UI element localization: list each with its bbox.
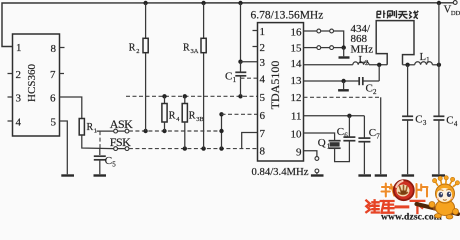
watermark text 维库一下 [366,200,424,213]
resistor R1 [79,119,97,136]
ground switches [339,56,350,58]
ground C7 [358,174,371,176]
svg-text:MHz: MHz [351,43,374,55]
wire pin4 stub [8,120,13,122]
capacitor C2 [359,77,379,96]
svg-text:6: 6 [50,93,56,105]
svg-text:ASK: ASK [110,117,133,131]
svg-text:C: C [225,71,232,83]
wire pin1 stub [253,30,258,32]
node ASK-R4 [162,129,166,133]
svg-text:C: C [415,114,422,126]
svg-text:3: 3 [260,57,266,69]
wire crystal to C6 bottom [335,141,350,162]
printed antenna loop [376,21,414,65]
inductor L1 [415,52,433,65]
svg-text:R: R [87,122,94,133]
svg-text:3A: 3A [191,48,199,55]
resistor R2 [129,3,148,131]
ground C4 [432,174,445,176]
wire junction column [221,114,223,148]
svg-text:R: R [189,111,196,122]
node L1-VDD [437,63,441,67]
node column-ASK [219,129,223,133]
node switches [342,45,346,49]
node ASK-R2 [143,129,147,133]
node rail-R2 [143,1,147,5]
svg-text:4: 4 [454,120,458,128]
svg-text:13: 13 [291,75,303,87]
wire pin13 to C2 [304,80,359,82]
ground pin9 [311,174,324,176]
wire L2 to antenna [369,64,387,66]
svg-text:R: R [169,111,176,122]
capacitor C3 [402,114,427,175]
svg-text:3: 3 [423,119,427,127]
svg-text:15: 15 [291,42,303,54]
wire TDA5100 pin7 to FSK [242,133,258,149]
wire pin14 to L2 [304,64,353,66]
wire antenna right to L1 [403,64,415,66]
svg-text:7: 7 [260,128,266,140]
IC U2 TDA5100 [258,23,304,161]
wire pin2 stub [253,46,258,48]
svg-text:5: 5 [112,161,116,169]
svg-text:0.84/3.4MHz: 0.84/3.4MHz [252,166,309,178]
switch 434 (pin16) [317,29,334,33]
wire C3 column [407,65,409,116]
watermark logo 找芯片 [382,180,428,200]
svg-text:2: 2 [136,48,139,55]
switch pin9 [315,157,319,173]
wire C1 to pin4 [240,76,242,78]
svg-text:L: L [359,55,365,66]
switch 868 (pin15) [317,46,334,50]
svg-text:6: 6 [344,132,348,140]
svg-text:C: C [366,83,373,95]
switch FSK [114,147,129,151]
node rail-VDD column [437,1,441,5]
svg-text:R: R [183,43,190,54]
wire VDD column [438,3,440,116]
wire ASK line [129,130,222,132]
svg-text:C: C [446,115,453,127]
wire rail to C1 / pin3 [240,3,242,62]
wire switch16 down to node [334,31,344,48]
node FSK-R3B [183,146,187,150]
wire L1 to VDD column [432,64,439,66]
ground pin5 [61,174,74,176]
wire pin15 to switch [304,47,317,49]
svg-text:6: 6 [260,110,266,122]
node lineA-C1 [238,94,242,98]
resistor R4 [162,96,180,131]
capacitor C1 [225,62,246,84]
svg-text:3B: 3B [196,116,204,123]
svg-text:www.dzsc.com: www.dzsc.com [381,211,442,222]
svg-text:2: 2 [260,42,266,54]
svg-text:11: 11 [291,110,302,122]
svg-text:12: 12 [291,92,302,104]
svg-text:Q: Q [318,137,326,149]
node FSK-R3A [201,146,205,150]
node lineA-R4 [162,94,166,98]
svg-text:5: 5 [51,117,57,129]
wire pin8 stub [60,47,65,49]
capacitor C6 [337,116,356,141]
svg-text:8: 8 [51,43,57,55]
node C6 [347,114,351,118]
capacitor C5 [94,148,117,174]
node C3 branch [405,63,409,67]
switch ASK [97,129,129,148]
svg-text:5: 5 [260,92,266,104]
IC U1 HCS360 [13,34,60,136]
wire line to TDA5100 pin5 [126,95,258,97]
svg-text:9: 9 [296,146,302,158]
resistor R3A [183,3,206,149]
svg-text:8: 8 [260,146,266,158]
wire to TDA5100 pin6 [222,113,258,115]
wire switch15 to ground [334,47,344,49]
wire FSK line to TDA5100 pin8 [129,148,258,150]
wire pin12 to ground [304,96,381,98]
svg-text:1: 1 [327,143,331,151]
wire pin3 stub [8,96,13,98]
ground pin13 [338,89,349,91]
svg-text:2: 2 [373,88,377,96]
svg-text:4: 4 [16,117,22,129]
wire C1 down to pin5 line [240,78,242,96]
svg-text:3: 3 [16,93,22,105]
label 434/868MHz [351,23,374,56]
crystal Q1 [318,137,341,151]
node pin3 [238,60,242,64]
node lineA-R3B [183,94,187,98]
svg-text:C: C [369,127,376,139]
wire to TDA5100 pin3 [241,61,258,63]
VDD terminal [444,1,460,17]
svg-text:4: 4 [260,74,266,86]
node rail-C1 [238,1,242,5]
svg-text:C: C [337,126,344,138]
wire pin7 stub [60,73,65,75]
svg-text:16: 16 [291,26,303,38]
wire pin16 to switch [304,30,317,32]
wire C2 up to L2 node [378,65,380,81]
svg-text:1: 1 [233,76,237,84]
svg-text:1: 1 [426,56,430,64]
label printed antenna (CJK) [377,10,418,18]
svg-text:R: R [129,43,136,54]
capacitor C4 [433,115,458,175]
svg-text:7: 7 [376,133,380,141]
svg-text:DD: DD [451,10,460,17]
svg-text:2: 2 [16,69,22,81]
svg-text:6.78/13.56MHz: 6.78/13.56MHz [251,10,324,22]
wire HCS360 pin6 to R1 [60,97,82,119]
wire pin11 to C6/C7 [304,115,365,117]
wire HCS360 pin5 to ground [60,121,68,174]
resistor R3B [182,96,204,148]
svg-text:HCS360: HCS360 [26,64,38,102]
watermark mascot [417,176,460,219]
node rail-R3A [201,1,205,5]
node pin13 ground [341,79,345,83]
node C2 branch [377,63,381,67]
svg-text:7: 7 [50,69,56,81]
wire top VDD rail [2,3,454,47]
wire pin10 to crystal [304,133,335,140]
svg-text:L: L [420,52,426,63]
inductor L2 [353,55,369,67]
svg-text:1: 1 [16,42,22,54]
svg-text:10: 10 [291,128,303,140]
ground C3 [402,174,415,176]
svg-text:TDA5100: TDA5100 [268,61,282,110]
wire R1 bottom to FSK [82,135,114,149]
svg-text:2: 2 [365,59,369,67]
svg-text:C: C [105,155,112,167]
svg-text:14: 14 [291,58,303,70]
wire pin2 stub [8,73,13,75]
wire pin9 to switch [304,151,317,157]
ground C5 [94,174,107,176]
svg-text:1: 1 [260,26,266,38]
ground pin12 [375,174,387,176]
node column top [219,112,223,116]
capacitor C7 [358,116,380,174]
node FSK-junction column [219,146,223,150]
